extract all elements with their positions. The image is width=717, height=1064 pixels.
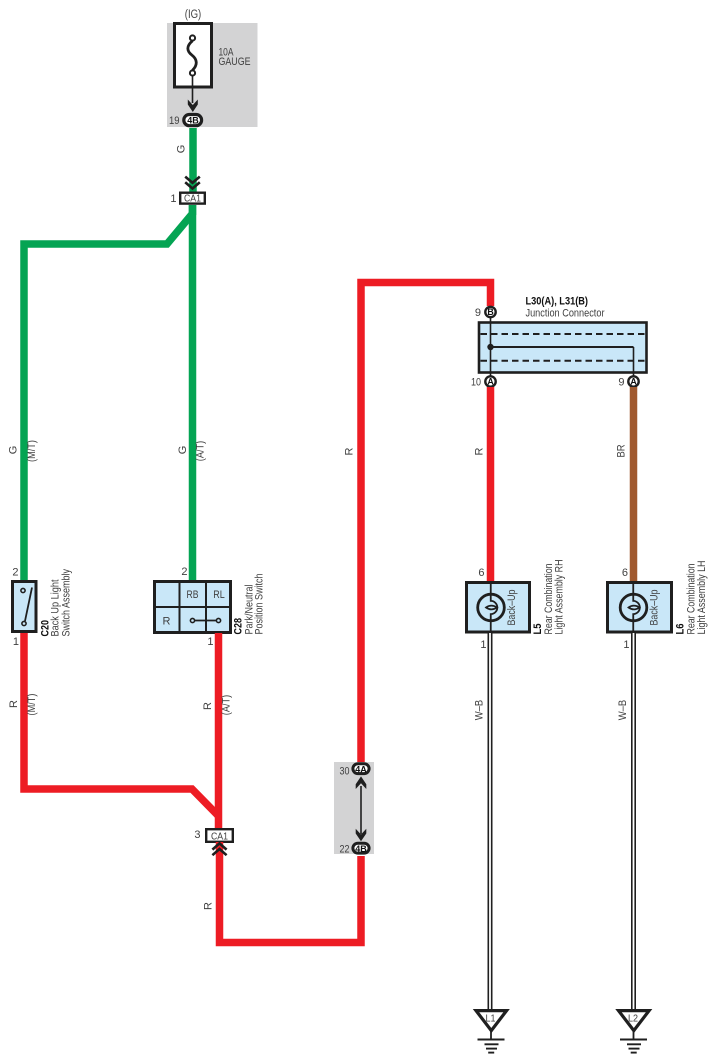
svg-text:CA1: CA1 (184, 194, 201, 205)
junction pin A (9, right) (628, 376, 638, 386)
svg-text:10: 10 (471, 377, 481, 389)
lamp L5 bulb circle (478, 594, 505, 621)
svg-text:(A/T): (A/T) (221, 695, 233, 716)
wire R below CA1 down right and up (220, 842, 362, 943)
wire W-B from L6 to ground L2 (631, 633, 636, 1010)
svg-text:A: A (630, 377, 637, 387)
lamp L6 internal wire and filament (633, 582, 640, 633)
wire BR junction to L6 (630, 387, 638, 581)
svg-text:6: 6 (622, 567, 628, 579)
svg-text:Junction Connector: Junction Connector (526, 308, 605, 320)
svg-text:RB: RB (187, 589, 199, 601)
svg-text:1: 1 (623, 639, 629, 651)
ground L1 (476, 1011, 507, 1031)
chevron arrows out of CA1 (pointing up) (212, 843, 226, 849)
svg-text:W–B: W–B (474, 700, 486, 721)
svg-text:2: 2 (181, 566, 187, 578)
svg-text:Position Switch: Position Switch (254, 574, 266, 635)
fuse element (190, 35, 195, 40)
svg-text:R: R (163, 616, 171, 628)
svg-text:(IG): (IG) (185, 9, 202, 21)
svg-text:R: R (8, 700, 20, 708)
svg-text:R: R (203, 902, 215, 910)
svg-text:(A/T): (A/T) (195, 441, 207, 462)
gray page-link box 4A/4B (334, 762, 374, 854)
svg-text:1: 1 (480, 639, 486, 651)
svg-text:Switch Assembly: Switch Assembly (61, 569, 73, 637)
wire R M/T from C20 down and over (24, 633, 219, 816)
arrow into pin 19 (188, 100, 198, 113)
svg-text:6: 6 (478, 567, 484, 579)
svg-text:L30(A), L31(B): L30(A), L31(B) (526, 296, 589, 308)
wire green A/T straight (189, 205, 197, 580)
switch C20 contacts (21, 588, 25, 592)
connector CA1 (pin 3) (206, 829, 233, 842)
svg-text:Back–Up: Back–Up (649, 590, 661, 626)
lamp L5 box (467, 583, 530, 633)
svg-text:GAUGE: GAUGE (219, 56, 251, 68)
chevron arrows into CA1 (185, 177, 200, 183)
svg-text:L1: L1 (486, 1014, 496, 1025)
wire G from 4B to CA1 (189, 128, 197, 192)
link arrow between 4A and 4B (360, 786, 362, 834)
switch C20 box (13, 582, 37, 632)
svg-text:9: 9 (475, 307, 481, 319)
fuse F1 box (175, 24, 212, 88)
connector CA1 (pin 1) (180, 193, 205, 204)
svg-text:R: R (202, 702, 214, 710)
connector oval 4A (pin 30) (353, 764, 369, 774)
svg-text:9: 9 (618, 377, 624, 389)
junction connector box (479, 323, 647, 373)
svg-text:Light Assembly RH: Light Assembly RH (554, 559, 566, 634)
junction bus dashed lines (481, 333, 646, 335)
svg-text:(M/T): (M/T) (26, 694, 38, 716)
svg-text:R: R (344, 447, 356, 455)
wire R A/T from C28 down (215, 633, 223, 828)
svg-text:22: 22 (340, 844, 350, 856)
junction internal wiring (490, 313, 492, 381)
wire R from 4A up and over to junction (361, 283, 491, 763)
svg-text:4A: 4A (355, 764, 367, 775)
svg-text:Back–Up: Back–Up (506, 590, 518, 626)
junction pin A (10) (485, 376, 495, 386)
C28 contact symbol (190, 618, 194, 622)
svg-text:Light Assembly LH: Light Assembly LH (696, 560, 708, 634)
lamp L6 box (608, 583, 672, 633)
svg-text:4B: 4B (355, 844, 367, 855)
lamp L6 bulb circle (620, 594, 647, 621)
svg-text:G: G (177, 446, 189, 455)
wire green branch M/T (24, 205, 193, 580)
ground L2 (619, 1011, 650, 1031)
svg-text:1: 1 (13, 636, 19, 648)
svg-text:4B: 4B (187, 116, 199, 127)
svg-text:RL: RL (213, 589, 225, 601)
svg-text:30: 30 (340, 766, 350, 778)
svg-text:CA1: CA1 (211, 831, 228, 842)
svg-text:3: 3 (194, 829, 200, 841)
connector oval 4B (top) (184, 115, 202, 126)
svg-text:19: 19 (169, 115, 180, 127)
gray service box (fuse area) (167, 23, 258, 127)
svg-text:G: G (176, 145, 188, 154)
svg-text:B: B (487, 307, 493, 317)
svg-text:R: R (474, 447, 486, 455)
wire R junction to L5 (487, 387, 495, 581)
switch C28 box (155, 582, 231, 633)
wire fuse to pin 19 (192, 76, 194, 103)
svg-text:1: 1 (170, 193, 176, 205)
connector oval 4B (pin 22) (353, 843, 369, 853)
wire W-B from L5 to ground L1 (488, 633, 493, 1010)
svg-text:G: G (8, 446, 20, 455)
svg-text:2: 2 (12, 567, 18, 579)
svg-text:L2: L2 (628, 1014, 638, 1025)
svg-text:BR: BR (616, 444, 628, 457)
svg-text:1: 1 (207, 636, 213, 648)
svg-text:(M/T): (M/T) (26, 440, 38, 462)
svg-text:A: A (487, 377, 494, 387)
junction node dot (487, 344, 493, 350)
svg-text:W–B: W–B (617, 700, 629, 721)
lamp L5 internal wire and filament (491, 582, 498, 633)
junction pin B (9) (485, 307, 495, 317)
